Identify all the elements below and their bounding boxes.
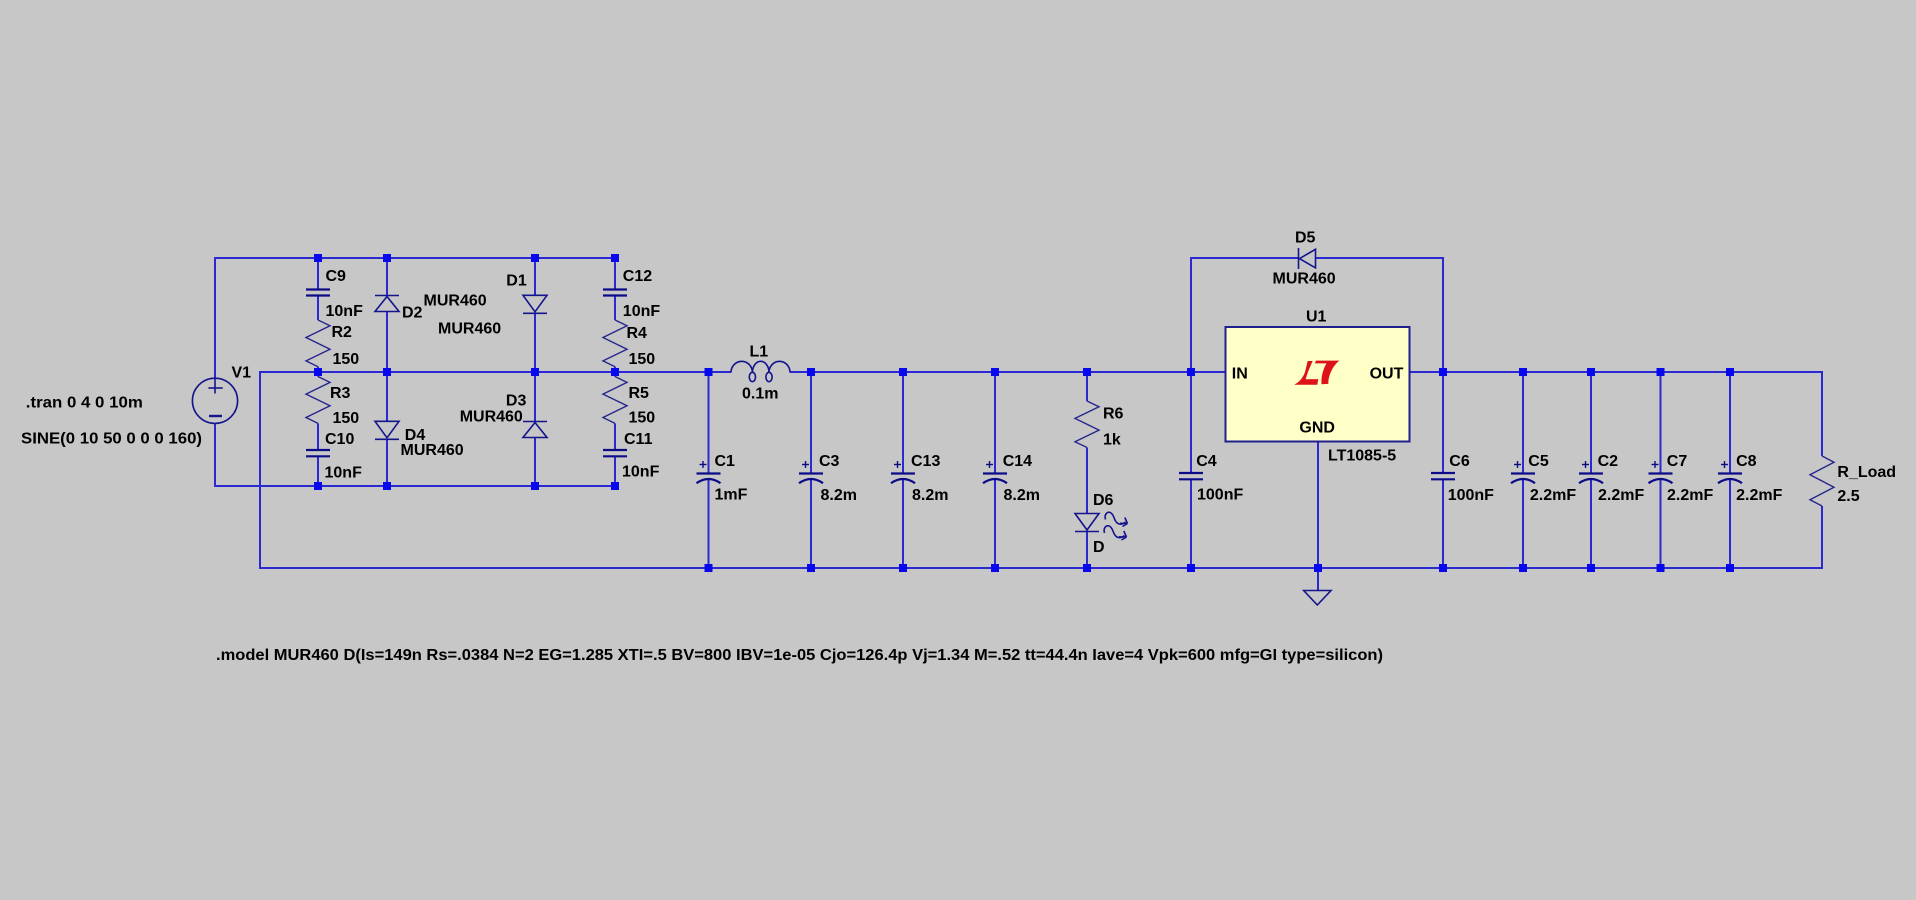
node bridge bottom x387 xyxy=(383,482,391,490)
wire C10 lower lead xyxy=(317,456,319,487)
svg-text:OUT: OUT xyxy=(1370,366,1404,383)
svg-text:MUR460: MUR460 xyxy=(460,409,523,426)
inductor L1 xyxy=(731,361,752,372)
wire V1 bottom lead xyxy=(214,423,216,487)
node mid rail x708 xyxy=(705,368,713,376)
node bottom rail x1523 xyxy=(1519,564,1527,572)
wire R3-C10 link xyxy=(317,423,319,450)
wire C3 upper lead xyxy=(810,372,812,474)
node bottom rail x995 xyxy=(991,564,999,572)
svg-text:8.2m: 8.2m xyxy=(912,487,948,504)
ground symbol xyxy=(1304,591,1331,606)
svg-text:100nF: 100nF xyxy=(1448,487,1494,504)
wire D1-D3 link xyxy=(534,313,536,421)
svg-text:MUR460: MUR460 xyxy=(1273,271,1336,288)
node mid rail x903 xyxy=(899,368,907,376)
wire bridge bottom xyxy=(214,485,615,487)
svg-text:LT1085-5: LT1085-5 xyxy=(1328,448,1396,465)
wire C4 upper lead xyxy=(1190,372,1192,473)
wire C14 lower lead xyxy=(994,480,996,568)
node bottom rail x1591 xyxy=(1587,564,1595,572)
node top rail x535 xyxy=(531,254,539,262)
svg-text:R4: R4 xyxy=(627,325,648,342)
wire V1 top lead xyxy=(214,257,216,378)
node mid rail x1087 xyxy=(1083,368,1091,376)
diode D3 xyxy=(523,421,547,423)
svg-text:D6: D6 xyxy=(1093,492,1114,509)
svg-text:MUR460: MUR460 xyxy=(424,293,487,310)
svg-text:1mF: 1mF xyxy=(715,487,748,504)
wire C14 upper lead xyxy=(994,372,996,474)
svg-text:C14: C14 xyxy=(1003,453,1032,470)
wire D2-D4 link xyxy=(386,312,388,422)
wire C1 upper lead xyxy=(708,372,710,474)
node bottom rail x1730 xyxy=(1726,564,1734,572)
svg-text:150: 150 xyxy=(333,410,360,427)
node mid rail x1443 xyxy=(1439,368,1447,376)
node bottom rail x1660 xyxy=(1657,564,1665,572)
wire D6 lower lead xyxy=(1086,531,1088,569)
wire U1 GND lead xyxy=(1317,442,1319,569)
node bottom rail x1087 xyxy=(1083,564,1091,572)
svg-text:C2: C2 xyxy=(1598,453,1619,470)
svg-text:10nF: 10nF xyxy=(623,303,661,320)
wire top bridge rail xyxy=(215,257,615,259)
wire D5 right segment xyxy=(1316,257,1444,259)
node bottom rail x903 xyxy=(899,564,907,572)
svg-text:D5: D5 xyxy=(1295,230,1316,247)
wire C12-R4 link xyxy=(614,296,616,321)
wire C4 lower lead xyxy=(1190,479,1192,568)
svg-text:100nF: 100nF xyxy=(1197,487,1243,504)
wire C11 lower lead xyxy=(614,456,616,487)
wire D2 upper lead xyxy=(386,258,388,296)
node mid rail x1191 xyxy=(1187,368,1195,376)
svg-text:10nF: 10nF xyxy=(326,303,364,320)
wire C7 upper lead xyxy=(1660,372,1662,474)
svg-text:R_Load: R_Load xyxy=(1837,464,1896,481)
wire C13 upper lead xyxy=(902,372,904,474)
wire C8 lower lead xyxy=(1729,480,1731,568)
wire R6-D6 link xyxy=(1086,448,1088,514)
svg-text:10nF: 10nF xyxy=(325,465,363,482)
diode D5 xyxy=(1298,248,1300,269)
node mid rail x387 xyxy=(383,368,391,376)
diode D4 xyxy=(375,421,399,438)
wire C9-R2 link xyxy=(317,296,319,321)
resistor R4 xyxy=(603,320,627,367)
wire C2 upper lead xyxy=(1590,372,1592,474)
wire C8 upper lead xyxy=(1729,372,1731,474)
node bottom rail x1318 xyxy=(1314,564,1322,572)
wire R2 lower lead xyxy=(317,367,319,373)
node top rail x318 xyxy=(314,254,322,262)
wire C2 lower lead xyxy=(1590,480,1592,568)
wire C4 riser to D5 xyxy=(1190,258,1192,372)
svg-text:D2: D2 xyxy=(402,305,423,322)
wire C1 lower lead xyxy=(708,480,710,568)
wire D5 left segment xyxy=(1190,257,1298,259)
capacitor C9 xyxy=(306,288,330,290)
svg-text:C6: C6 xyxy=(1449,453,1470,470)
svg-text:C4: C4 xyxy=(1196,453,1217,470)
wire mid rail left of L1 xyxy=(260,371,731,373)
wire C6 upper lead xyxy=(1442,372,1444,473)
capacitor C4 xyxy=(1179,472,1203,474)
wire R3 upper lead xyxy=(317,371,319,377)
svg-text:150: 150 xyxy=(629,410,656,427)
capacitor C13 xyxy=(891,472,915,474)
svg-text:2.2mF: 2.2mF xyxy=(1598,487,1644,504)
svg-text:C1: C1 xyxy=(715,453,736,470)
resistor R_Load xyxy=(1810,456,1834,506)
wire R5-C11 link xyxy=(614,423,616,450)
voltage source V1 xyxy=(192,378,237,423)
wire column C12/R4 xyxy=(614,258,616,290)
regulator U1 body xyxy=(1226,327,1410,442)
svg-text:V1: V1 xyxy=(232,365,252,382)
svg-text:2.2mF: 2.2mF xyxy=(1530,487,1576,504)
node bottom rail x811 xyxy=(807,564,815,572)
svg-text:C8: C8 xyxy=(1736,453,1757,470)
svg-text:U1: U1 xyxy=(1306,309,1327,326)
node bridge bottom x318 xyxy=(314,482,322,490)
svg-text:2.2mF: 2.2mF xyxy=(1667,487,1713,504)
node bridge bottom x615 xyxy=(611,482,619,490)
node mid rail x615 xyxy=(611,368,619,376)
wire C3 lower lead xyxy=(810,480,812,568)
svg-text:C7: C7 xyxy=(1667,453,1688,470)
wire R4 lower lead xyxy=(614,367,616,373)
svg-text:8.2m: 8.2m xyxy=(821,487,857,504)
svg-text:.tran 0 4 0 10m: .tran 0 4 0 10m xyxy=(26,395,143,412)
svg-text:R6: R6 xyxy=(1103,406,1124,423)
svg-text:D1: D1 xyxy=(506,273,527,290)
wire R5 upper lead xyxy=(614,371,616,377)
wire bottom rail xyxy=(259,567,1823,569)
svg-text:8.2m: 8.2m xyxy=(1004,487,1040,504)
node bottom rail x708 xyxy=(705,564,713,572)
svg-text:SINE(0 10 50 0 0 0 160): SINE(0 10 50 0 0 0 160) xyxy=(21,431,202,448)
wire C6 lower lead xyxy=(1442,479,1444,568)
node bottom rail x1191 xyxy=(1187,564,1195,572)
diode D2 xyxy=(375,295,399,297)
svg-text:.model MUR460 D(Is=149n Rs=.03: .model MUR460 D(Is=149n Rs=.0384 N=2 EG=… xyxy=(216,647,1383,664)
svg-text:1k: 1k xyxy=(1103,432,1121,449)
node mid rail x1660 xyxy=(1657,368,1665,376)
wire C13 lower lead xyxy=(902,480,904,568)
svg-text:R2: R2 xyxy=(332,324,353,341)
LT logo xyxy=(1295,361,1318,385)
svg-text:D: D xyxy=(1093,539,1105,556)
svg-text:L1: L1 xyxy=(750,344,769,361)
capacitor C3 xyxy=(799,472,823,474)
node mid rail x1730 xyxy=(1726,368,1734,376)
wire GND stub xyxy=(1317,568,1319,591)
svg-text:MUR460: MUR460 xyxy=(401,442,464,459)
diode D1 xyxy=(523,295,547,312)
wire D3 lower lead xyxy=(534,438,536,487)
wire C5 upper lead xyxy=(1522,372,1524,474)
resistor R5 xyxy=(603,377,627,424)
wire C7 lower lead xyxy=(1660,480,1662,568)
svg-text:MUR460: MUR460 xyxy=(438,321,501,338)
svg-text:150: 150 xyxy=(629,351,656,368)
resistor R3 xyxy=(306,377,330,424)
svg-text:0.1m: 0.1m xyxy=(742,386,778,403)
svg-text:2.2mF: 2.2mF xyxy=(1736,487,1782,504)
wire out rail xyxy=(1409,371,1823,373)
capacitor C6 xyxy=(1431,472,1455,474)
svg-text:C9: C9 xyxy=(326,268,347,285)
wire R6 upper lead xyxy=(1086,372,1088,401)
svg-text:GND: GND xyxy=(1299,420,1335,437)
wire C5 lower lead xyxy=(1522,480,1524,568)
diode D6 LED xyxy=(1075,514,1099,531)
svg-text:C3: C3 xyxy=(819,453,840,470)
svg-text:C5: C5 xyxy=(1528,453,1549,470)
svg-text:2.5: 2.5 xyxy=(1837,488,1859,505)
svg-text:10nF: 10nF xyxy=(622,464,660,481)
capacitor C5 xyxy=(1511,472,1535,474)
svg-text:R5: R5 xyxy=(629,385,650,402)
node bottom rail x1443 xyxy=(1439,564,1447,572)
node top rail x615 xyxy=(611,254,619,262)
svg-text:C10: C10 xyxy=(325,431,354,448)
wire mid rail right of L1 xyxy=(790,371,1226,373)
node top rail x387 xyxy=(383,254,391,262)
resistor R2 xyxy=(306,320,330,367)
svg-text:R3: R3 xyxy=(330,385,351,402)
capacitor C14 xyxy=(983,472,1007,474)
capacitor C2 xyxy=(1579,472,1603,474)
svg-text:150: 150 xyxy=(333,351,360,368)
node mid rail x995 xyxy=(991,368,999,376)
resistor R6 xyxy=(1075,401,1099,448)
wire corner drop at x260 xyxy=(259,371,261,568)
node mid rail x1523 xyxy=(1519,368,1527,376)
svg-text:D3: D3 xyxy=(506,393,527,410)
wire D1 upper lead xyxy=(534,258,536,295)
svg-text:IN: IN xyxy=(1232,366,1248,383)
svg-text:C12: C12 xyxy=(623,268,652,285)
wire C6 riser to D5 xyxy=(1442,257,1444,372)
capacitor C8 xyxy=(1718,472,1742,474)
capacitor C10 xyxy=(306,449,330,451)
wire R_Load lower lead xyxy=(1821,506,1823,569)
wire D4 lower lead xyxy=(386,440,388,488)
node mid rail x535 xyxy=(531,368,539,376)
wire column C9/R2 xyxy=(317,258,319,290)
node bridge bottom x535 xyxy=(531,482,539,490)
wire R_Load upper lead xyxy=(1821,371,1823,456)
capacitor C1 xyxy=(697,472,721,474)
capacitor C7 xyxy=(1649,472,1673,474)
capacitor C12 xyxy=(603,288,627,290)
node mid rail x811 xyxy=(807,368,815,376)
svg-text:C13: C13 xyxy=(911,453,940,470)
capacitor C11 xyxy=(603,449,627,451)
node mid rail x1591 xyxy=(1587,368,1595,376)
node mid rail x318 xyxy=(314,368,322,376)
svg-text:C11: C11 xyxy=(624,431,653,448)
